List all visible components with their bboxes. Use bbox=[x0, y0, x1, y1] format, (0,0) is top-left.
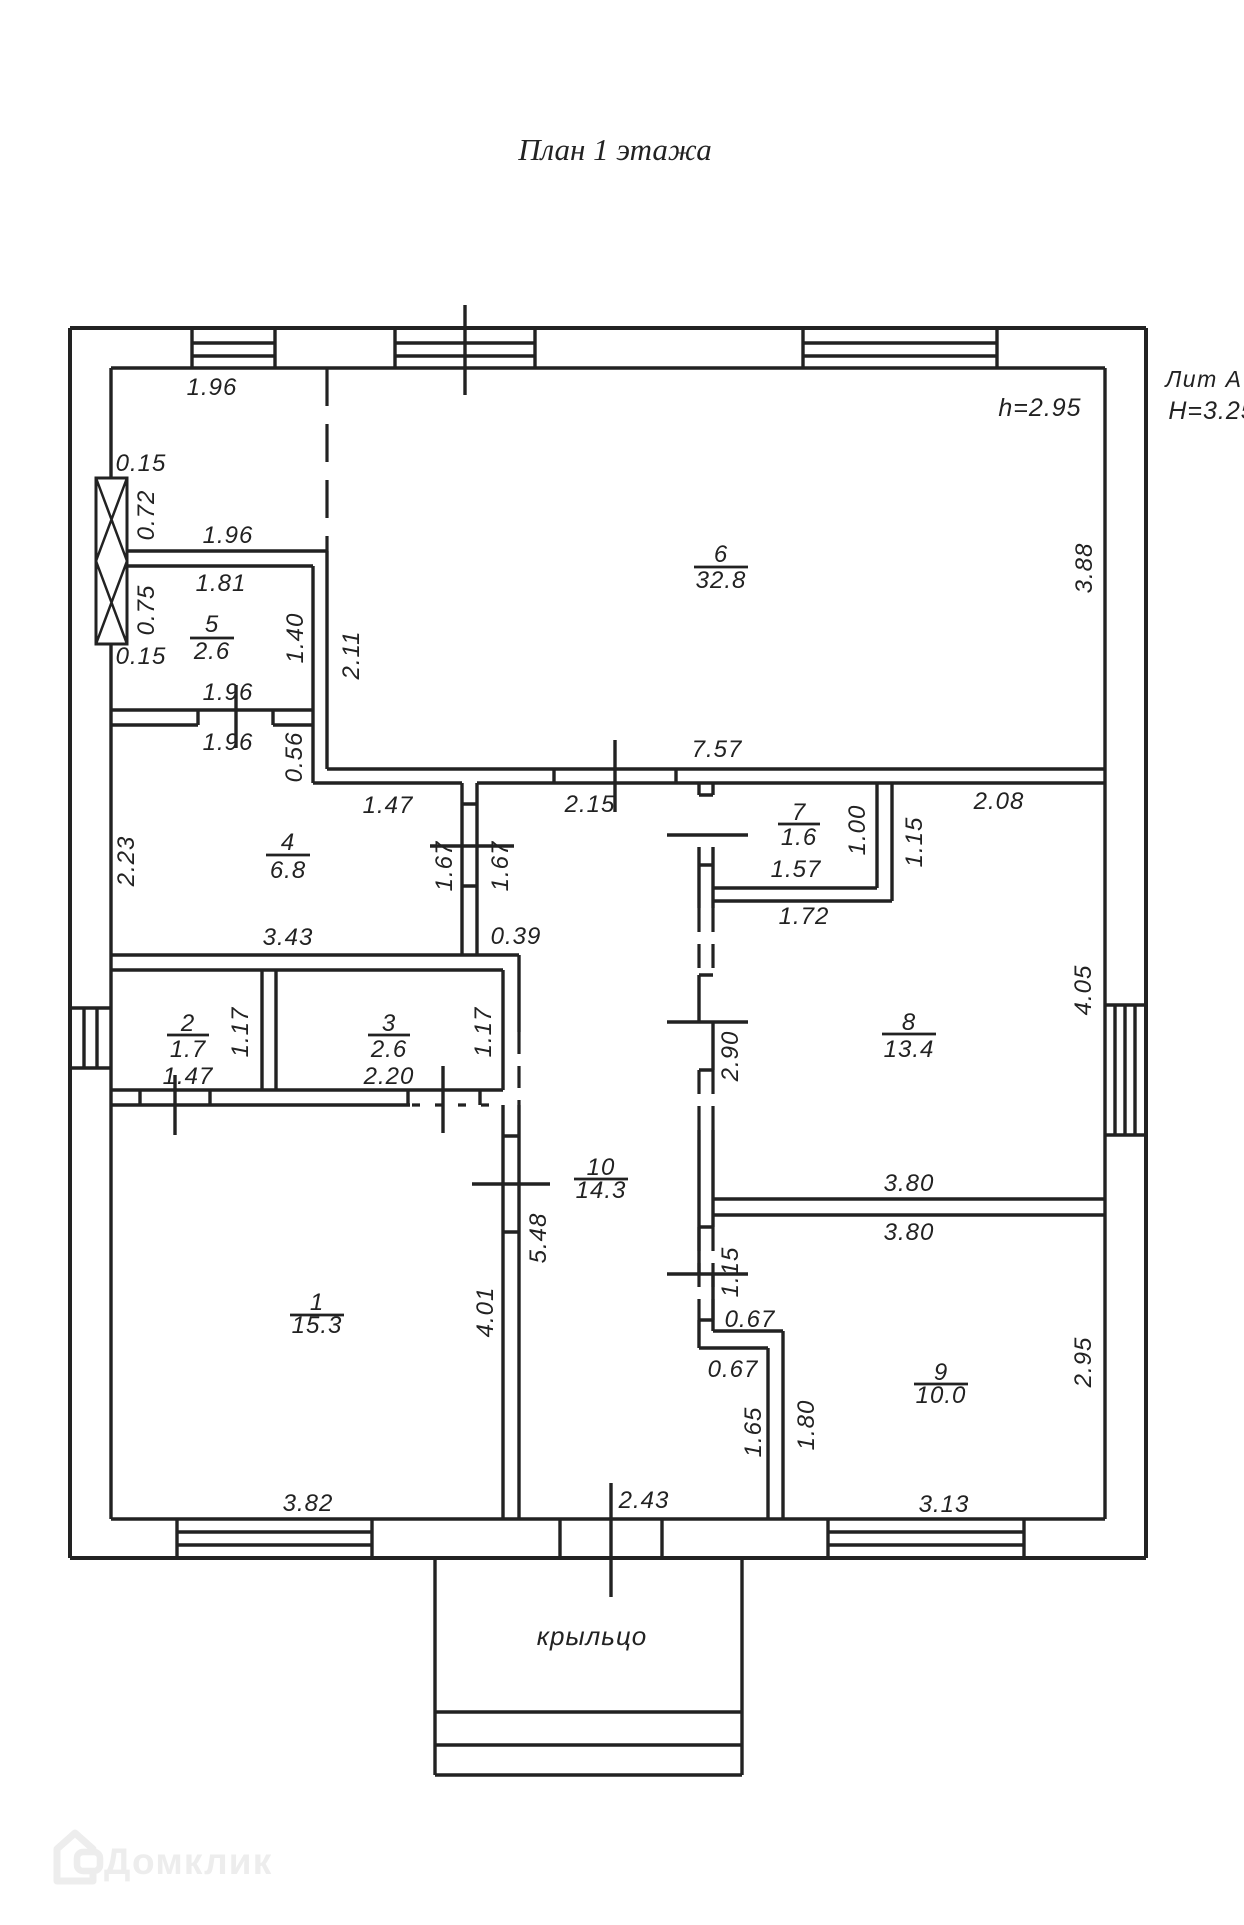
svg-text:1.65: 1.65 bbox=[740, 1407, 767, 1458]
svg-text:H=3.25: H=3.25 bbox=[1168, 397, 1244, 425]
svg-text:13.4: 13.4 bbox=[884, 1036, 935, 1063]
svg-text:1.15: 1.15 bbox=[717, 1247, 744, 1298]
svg-text:1.67: 1.67 bbox=[487, 840, 514, 891]
svg-text:6.8: 6.8 bbox=[270, 857, 306, 884]
svg-text:8: 8 bbox=[902, 1009, 916, 1036]
svg-text:1.81: 1.81 bbox=[196, 570, 247, 597]
svg-text:2.6: 2.6 bbox=[193, 638, 230, 665]
svg-text:1.17: 1.17 bbox=[227, 1006, 254, 1057]
svg-text:14.3: 14.3 bbox=[576, 1177, 627, 1204]
svg-text:4: 4 bbox=[281, 829, 295, 856]
svg-text:1.96: 1.96 bbox=[187, 374, 238, 401]
svg-text:1.80: 1.80 bbox=[793, 1400, 820, 1451]
svg-text:5: 5 bbox=[205, 611, 219, 638]
svg-text:1.67: 1.67 bbox=[431, 840, 458, 891]
svg-text:1.72: 1.72 bbox=[779, 903, 830, 930]
svg-text:32.8: 32.8 bbox=[696, 567, 747, 594]
svg-text:0.56: 0.56 bbox=[281, 732, 308, 783]
svg-text:4.05: 4.05 bbox=[1070, 965, 1097, 1016]
svg-text:2.90: 2.90 bbox=[717, 1031, 744, 1083]
svg-text:2.20: 2.20 bbox=[363, 1063, 415, 1090]
svg-text:5.48: 5.48 bbox=[525, 1213, 552, 1264]
svg-text:3.88: 3.88 bbox=[1071, 543, 1098, 594]
svg-text:10.0: 10.0 bbox=[916, 1382, 967, 1409]
svg-text:0.15: 0.15 bbox=[116, 450, 167, 477]
svg-text:3.80: 3.80 bbox=[884, 1170, 935, 1197]
svg-text:7.57: 7.57 bbox=[692, 736, 743, 763]
svg-text:1.15: 1.15 bbox=[901, 817, 928, 868]
svg-text:1.96: 1.96 bbox=[203, 679, 254, 706]
svg-text:2.23: 2.23 bbox=[113, 836, 140, 888]
svg-text:15.3: 15.3 bbox=[292, 1312, 343, 1339]
svg-text:1.96: 1.96 bbox=[203, 522, 254, 549]
svg-text:2.08: 2.08 bbox=[973, 788, 1025, 815]
svg-text:4.01: 4.01 bbox=[472, 1287, 499, 1338]
svg-text:3.13: 3.13 bbox=[919, 1491, 970, 1518]
svg-text:2.15: 2.15 bbox=[564, 791, 616, 818]
svg-text:0.39: 0.39 bbox=[491, 923, 542, 950]
svg-text:0.75: 0.75 bbox=[133, 585, 160, 636]
svg-text:1.47: 1.47 bbox=[363, 792, 414, 819]
svg-text:3.43: 3.43 bbox=[263, 924, 314, 951]
svg-text:Домклик: Домклик bbox=[104, 1841, 272, 1882]
svg-text:7: 7 bbox=[792, 799, 807, 826]
svg-text:1.57: 1.57 bbox=[771, 856, 822, 883]
svg-text:1.17: 1.17 bbox=[470, 1006, 497, 1057]
svg-text:6: 6 bbox=[714, 541, 728, 568]
svg-text:1.96: 1.96 bbox=[203, 729, 254, 756]
svg-text:2: 2 bbox=[180, 1010, 195, 1037]
svg-text:1.00: 1.00 bbox=[844, 805, 871, 856]
svg-text:2.6: 2.6 bbox=[370, 1036, 407, 1063]
svg-text:3: 3 bbox=[382, 1010, 396, 1037]
svg-text:План 1 этажа: План 1 этажа bbox=[517, 132, 712, 167]
svg-text:0.67: 0.67 bbox=[725, 1306, 776, 1333]
svg-text:3.82: 3.82 bbox=[283, 1490, 334, 1517]
svg-text:2.43: 2.43 bbox=[618, 1487, 670, 1514]
svg-text:3.80: 3.80 bbox=[884, 1219, 935, 1246]
svg-text:h=2.95: h=2.95 bbox=[998, 394, 1081, 422]
svg-text:0.72: 0.72 bbox=[133, 490, 160, 541]
svg-text:крыльцо: крыльцо bbox=[537, 1621, 648, 1651]
svg-text:Лит А: Лит А bbox=[1164, 366, 1243, 392]
svg-text:1.40: 1.40 bbox=[282, 613, 309, 664]
svg-text:0.15: 0.15 bbox=[116, 643, 167, 670]
svg-text:1.6: 1.6 bbox=[781, 824, 817, 851]
svg-text:1.7: 1.7 bbox=[170, 1036, 207, 1063]
svg-text:0.67: 0.67 bbox=[708, 1356, 759, 1383]
svg-text:2.95: 2.95 bbox=[1070, 1337, 1097, 1389]
svg-text:2.11: 2.11 bbox=[338, 631, 365, 681]
svg-text:1.47: 1.47 bbox=[163, 1063, 214, 1090]
